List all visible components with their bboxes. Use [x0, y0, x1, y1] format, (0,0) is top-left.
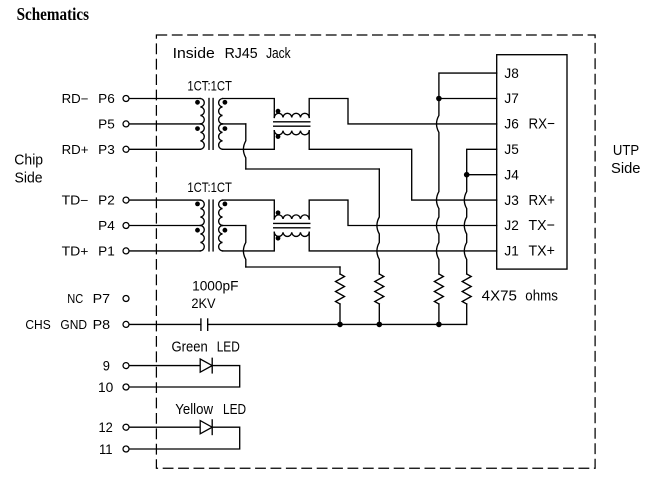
svg-text:RX+: RX+ [529, 192, 556, 209]
wire P2 to T2 primary [129, 199, 200, 201]
wire J8/J7 bus down to R3 [437, 99, 439, 275]
wire choke L2 bottom to J1 TX+ [309, 232, 497, 251]
choke L1 (RX common-mode) [274, 109, 310, 139]
pin P8 terminal [123, 321, 129, 327]
wire choke L1 top to J6 RX- [309, 99, 497, 124]
pin 9 terminal [123, 363, 129, 369]
svg-text:ohms: ohms [525, 287, 558, 304]
svg-text:9: 9 [103, 357, 110, 373]
node J5/J4 junction [464, 172, 470, 178]
wire T2 secondary bottom to choke L2 [223, 232, 275, 251]
wire J7 to junction [439, 98, 497, 100]
pin P2 terminal [123, 197, 129, 203]
svg-text:1000pF: 1000pF [192, 278, 238, 293]
svg-text:P8: P8 [93, 318, 111, 332]
svg-text:LED: LED [217, 340, 240, 356]
svg-text:RD+: RD+ [62, 143, 89, 157]
svg-text:TX+: TX+ [529, 243, 556, 260]
wire T1 secondary top to choke L1 [223, 99, 275, 118]
svg-text:P3: P3 [98, 143, 115, 157]
svg-text:Schematics: Schematics [17, 4, 89, 24]
pin P6 terminal [123, 96, 129, 102]
svg-text:J3: J3 [504, 192, 519, 208]
pin P3 terminal [123, 146, 129, 152]
wire P5 to T1 primary center tap [129, 123, 200, 125]
wire P8 to capacitor C1 [129, 323, 201, 325]
pin P1 terminal [123, 248, 129, 254]
resistor R4 75 ohm [462, 274, 471, 304]
pin 10 terminal [123, 384, 129, 390]
svg-text:TD−: TD− [62, 194, 89, 208]
wire P4 to T2 primary center tap [129, 225, 200, 227]
svg-text:Yellow: Yellow [175, 402, 213, 418]
wire J5 to junction bus [467, 149, 497, 172]
svg-text:P1: P1 [98, 245, 115, 259]
svg-text:1CT:1CT: 1CT:1CT [187, 77, 232, 93]
svg-text:J2: J2 [504, 217, 519, 233]
svg-text:10: 10 [98, 379, 114, 395]
svg-text:RJ45: RJ45 [225, 45, 258, 62]
wire T2 secondary top to choke L2 [223, 200, 275, 219]
pin 12 terminal [123, 424, 129, 430]
choke L2 (TX common-mode) [274, 210, 310, 240]
svg-text:Side: Side [611, 160, 641, 177]
svg-text:CHS: CHS [25, 318, 50, 332]
svg-text:RX−: RX− [529, 116, 556, 133]
svg-text:1CT:1CT: 1CT:1CT [187, 179, 232, 195]
wire J5/J4 bus down to R4 [464, 175, 466, 274]
transformer T2 (TX) 1CT:1CT [195, 200, 227, 251]
svg-text:P2: P2 [98, 194, 115, 208]
svg-text:J6: J6 [504, 116, 519, 132]
wire pin 12 to yellow LED anode [129, 426, 200, 428]
svg-text:J7: J7 [504, 90, 519, 106]
wire choke L2 top to J2 TX- [309, 200, 497, 225]
pin P7 terminal (NC) [123, 296, 129, 302]
svg-text:12: 12 [99, 419, 113, 435]
svg-text:11: 11 [99, 441, 113, 457]
svg-text:P6: P6 [98, 92, 115, 106]
svg-text:Side: Side [15, 170, 43, 187]
svg-text:Chip: Chip [14, 151, 43, 168]
wire P3 to T1 primary [129, 148, 200, 150]
svg-text:NC: NC [67, 292, 83, 306]
diode D2 Yellow LED [200, 421, 212, 434]
svg-text:Inside: Inside [173, 45, 215, 62]
pin P4 terminal [123, 223, 129, 229]
capacitor C1 1000pF 2KV [201, 318, 208, 331]
svg-text:4X75: 4X75 [482, 287, 517, 304]
svg-text:J8: J8 [504, 65, 519, 81]
svg-text:TD+: TD+ [62, 245, 89, 259]
wire P1 to T2 primary [129, 250, 200, 252]
svg-text:J5: J5 [504, 141, 519, 157]
svg-text:J4: J4 [504, 166, 519, 182]
dashed boundary of RJ45 jack [156, 35, 595, 468]
svg-text:UTP: UTP [613, 142, 639, 159]
wire ground bus to resistors [208, 323, 467, 325]
pin P5 terminal [123, 121, 129, 127]
resistor R1 75 ohm [339, 267, 341, 274]
node R2 bottom junction [377, 322, 383, 328]
svg-text:TX−: TX− [529, 217, 556, 234]
diode D1 Green LED [200, 359, 212, 372]
svg-text:Green: Green [172, 340, 208, 356]
svg-text:J1: J1 [504, 243, 519, 259]
node R3 bottom junction [436, 322, 442, 328]
RJ45 connector J1-J8 box [497, 55, 567, 269]
wire green LED cathode loop to pin 10 [129, 366, 240, 387]
node R1 bottom junction [337, 322, 343, 328]
node J8/J7 junction [436, 96, 442, 102]
wire T1 center tap down to R2 [377, 169, 379, 274]
svg-text:P4: P4 [98, 219, 115, 233]
wire choke L1 bottom to J3 RX+ [309, 131, 497, 200]
svg-text:P5: P5 [98, 118, 115, 132]
transformer T1 (RX) 1CT:1CT [195, 99, 227, 150]
resistor R2 75 ohm [375, 274, 384, 304]
wire J4 to junction [467, 174, 497, 176]
pin 11 terminal [123, 446, 129, 452]
resistor R3 75 ohm [434, 274, 443, 304]
wire T2 secondary center tap [223, 225, 246, 227]
wire T1 secondary bottom to choke L1 [223, 131, 275, 150]
svg-text:GND: GND [60, 318, 87, 332]
svg-text:LED: LED [223, 402, 246, 418]
wire P6 to T1 primary [129, 98, 200, 100]
svg-text:2KV: 2KV [191, 296, 215, 311]
wire yellow LED cathode loop to pin 11 [129, 427, 240, 449]
svg-text:Jack: Jack [266, 45, 291, 62]
wire T1 secondary center tap [223, 123, 246, 125]
svg-text:RD−: RD− [62, 92, 89, 106]
svg-text:P7: P7 [93, 292, 111, 306]
wire pin 9 to green LED anode [129, 365, 200, 367]
wire J8 to junction bus [439, 73, 497, 96]
